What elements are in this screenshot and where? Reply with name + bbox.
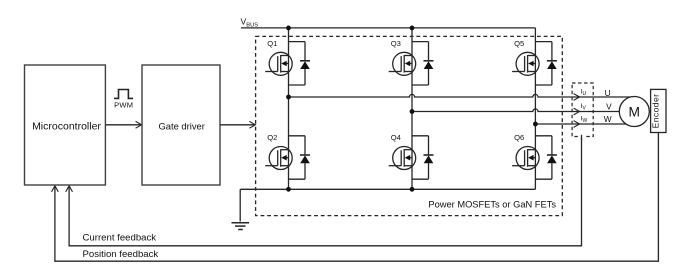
block Microcontroller (25, 65, 106, 185)
wire phase W (535, 123, 634, 125)
svg-text:V: V (606, 101, 612, 111)
transistor Q6 (512, 136, 557, 179)
wire bottom rail to ground corner (240, 188, 535, 190)
wire phase U (289, 94, 635, 97)
motor M (619, 97, 649, 127)
transistor Q5 (512, 42, 557, 85)
arrowhead into gate driver (136, 121, 142, 128)
ground (232, 223, 250, 230)
power stage dashed box (256, 36, 563, 215)
junction rail leg1 (286, 187, 291, 192)
block Gate driver (142, 65, 220, 185)
arrowhead into power stage (249, 121, 255, 128)
svg-text:Encoder: Encoder (651, 94, 661, 129)
transistor Q1 (265, 42, 310, 85)
arrowhead position feedback into microcontroller (52, 186, 59, 192)
transistor Q4 (389, 136, 434, 179)
junction VBUS leg2 (410, 26, 415, 31)
wire gate driver to power stage (220, 124, 255, 126)
current sense dashed box (572, 83, 593, 140)
svg-text:Q5: Q5 (514, 39, 524, 48)
PWM pulse symbol (114, 90, 133, 99)
node V tap (410, 109, 415, 114)
transistor Q3 (389, 42, 434, 85)
arrowhead current feedback into microcontroller (66, 186, 73, 192)
svg-text:Q2: Q2 (267, 133, 277, 142)
svg-text:Position feedback: Position feedback (83, 249, 159, 260)
svg-text:Microcontroller: Microcontroller (32, 120, 101, 132)
svg-text:Q6: Q6 (514, 133, 524, 142)
node U tap (286, 95, 291, 100)
svg-text:M: M (629, 104, 641, 119)
arrowhead current sense IW (574, 121, 580, 128)
svg-text:Q3: Q3 (391, 39, 401, 48)
svg-text:Q4: Q4 (391, 133, 401, 142)
svg-text:W: W (604, 114, 612, 124)
svg-text:PWM: PWM (114, 101, 133, 110)
svg-text:Power MOSFETs or GaN FETs: Power MOSFETs or GaN FETs (428, 199, 556, 209)
wire current feedback (69, 137, 581, 246)
arrowhead current sense IV (574, 108, 580, 115)
junction rail leg2 (410, 187, 415, 192)
wire phase V (412, 109, 634, 112)
svg-text:Gate driver: Gate driver (159, 120, 205, 131)
arrowhead current sense IU (574, 94, 580, 101)
wire leg 3 vertical (534, 28, 536, 189)
node W tap (533, 122, 538, 127)
wire PWM arrow microcontroller to gate driver (105, 124, 141, 126)
junction VBUS leg1 (286, 26, 291, 31)
wire position feedback (55, 133, 659, 262)
wire ground stem (239, 189, 241, 221)
wire VBUS rail (241, 27, 535, 29)
svg-text:U: U (605, 88, 611, 98)
transistor Q2 (265, 136, 310, 179)
svg-text:Q1: Q1 (267, 39, 277, 48)
wire leg 1 vertical (288, 28, 290, 189)
encoder box (651, 89, 666, 132)
svg-text:Current feedback: Current feedback (83, 233, 157, 244)
wire leg 2 vertical (411, 28, 413, 189)
